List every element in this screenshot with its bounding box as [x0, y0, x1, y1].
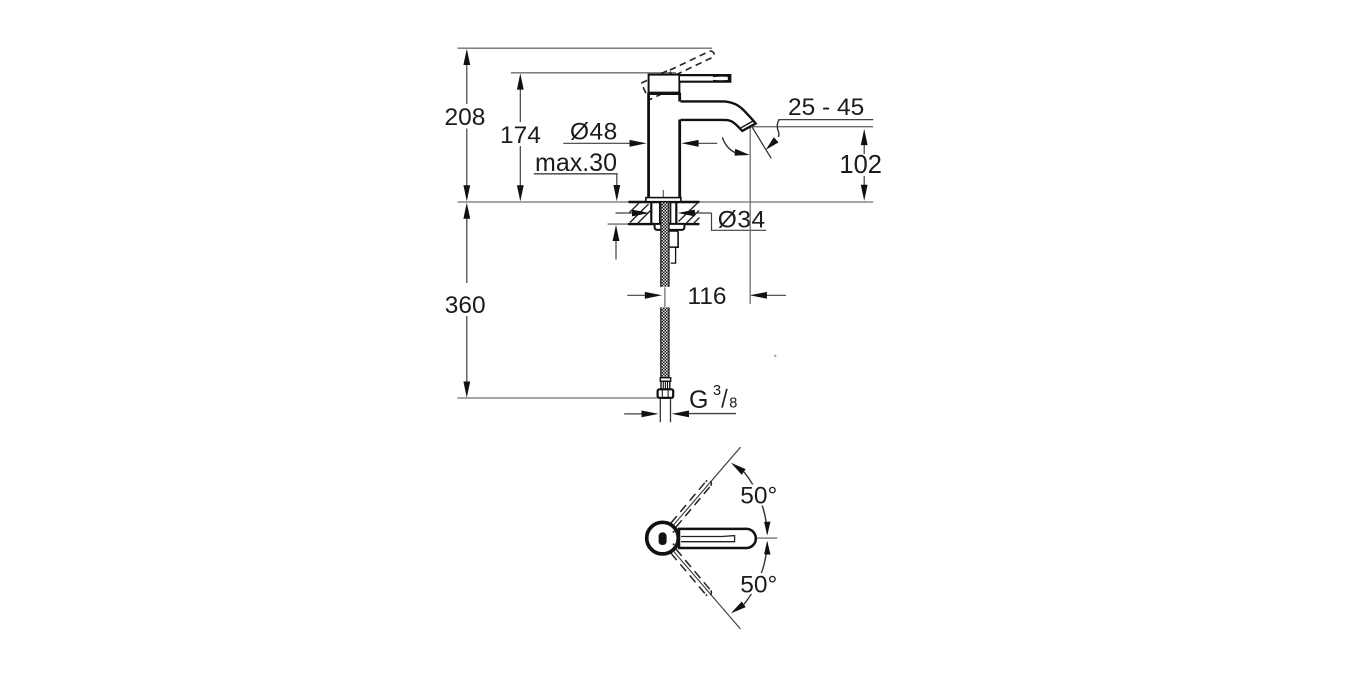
dimension 102 line	[863, 144, 865, 154]
svg-text:360: 360	[445, 292, 486, 319]
dimension 174 arrow down	[517, 185, 524, 201]
dimension 116 arrow left (points right)	[627, 294, 647, 296]
knurled collar	[661, 381, 670, 389]
svg-text:G: G	[689, 386, 708, 414]
faucet body right edge	[678, 93, 681, 102]
dimension 102 arrow down	[861, 185, 868, 201]
stray speck	[774, 355, 776, 357]
upper arc arrowhead at boundary	[731, 463, 746, 475]
shank inner walls	[659, 203, 661, 225]
lever handle (side view)	[680, 75, 730, 82]
25-45 leader curve with arrow	[777, 120, 779, 137]
svg-text:174: 174	[500, 122, 541, 149]
indicator slot	[659, 532, 667, 545]
ghost lever stem rotated up (dashed)	[671, 481, 711, 528]
dimension 174 arrow up	[517, 73, 524, 89]
hose break centerline	[664, 288, 666, 308]
spout tip horizontal extension line	[752, 126, 874, 128]
dimension 34 arrow right (points left)	[695, 212, 712, 214]
countertop hatching right	[679, 203, 700, 224]
dimension 360 line	[466, 218, 468, 283]
G3/8 threaded tube	[659, 398, 661, 422]
faucet body circle (top view)	[647, 522, 679, 554]
countertop line	[458, 201, 874, 203]
connection rod right of hose	[670, 231, 678, 247]
ghost lever stem rotated down (dashed)	[671, 549, 711, 596]
mounting washer under slab	[655, 225, 685, 230]
leader step to label 34	[712, 213, 767, 230]
top reference line (overall height 208 upper extent)	[458, 47, 713, 49]
shank left wall	[650, 203, 652, 225]
label 50 deg upper	[739, 485, 780, 506]
svg-text:25 - 45: 25 - 45	[788, 94, 864, 121]
dimension 116 arrow right (points left)	[766, 294, 786, 296]
faucet body left edge	[647, 93, 650, 198]
dimension 102 arrow up	[861, 129, 868, 145]
svg-text:Ø34: Ø34	[718, 207, 766, 234]
svg-text:102: 102	[839, 151, 882, 179]
lower arc arrowhead at centerline	[764, 541, 770, 555]
label 50 deg lower	[739, 573, 780, 594]
dimension 34 arrow left (points right)	[616, 212, 635, 214]
shank right wall	[675, 203, 677, 225]
countertop slab bottom line	[608, 223, 628, 225]
flexible hose braid lower segment	[661, 307, 669, 377]
svg-text:Ø48: Ø48	[570, 119, 618, 146]
spout tip vertical extension line	[749, 128, 751, 305]
aerator swivel arc arrow	[722, 137, 741, 154]
handle swing upper boundary line	[673, 447, 740, 525]
dimension 174 line	[519, 88, 521, 122]
svg-text:max.30: max.30	[535, 149, 617, 177]
dimension 48 arrow line left (points right at body)	[563, 142, 631, 144]
dimension 208 arrow down	[463, 185, 470, 201]
hose hex nut	[658, 389, 674, 398]
faucet base plate	[646, 198, 681, 202]
dimension 208 line	[466, 63, 468, 104]
faucet cartridge cap	[649, 75, 680, 93]
svg-text:50°: 50°	[740, 571, 777, 598]
svg-text:208: 208	[445, 104, 486, 131]
dimension G3/8 arrow left (points right)	[624, 413, 643, 415]
supply line inside body	[662, 190, 664, 202]
svg-text:50°: 50°	[740, 483, 777, 510]
ghost handle raised position (dashed)	[641, 49, 720, 99]
svg-text:116: 116	[687, 283, 726, 310]
50 degree arc upper	[744, 472, 767, 534]
countertop slab top (thick segment)	[629, 201, 700, 204]
cap bottom thick band	[648, 92, 681, 95]
50 degree arc lower	[744, 543, 767, 605]
spout mouth line	[741, 121, 753, 128]
flexible hose braid upper segment	[661, 203, 669, 287]
aerator 45 degree line	[752, 126, 772, 158]
max.30 leader down arrow to countertop	[616, 174, 618, 186]
lower arc arrowhead at boundary	[731, 602, 746, 614]
svg-text:8: 8	[729, 396, 737, 412]
dimension 48 arrow line right (points left at body)	[697, 142, 717, 144]
horizontal centerline of top view	[679, 537, 777, 539]
25-45 shelf line	[778, 119, 873, 121]
dimension G3/8 arrow right (points left)	[688, 413, 737, 415]
svg-text:3: 3	[713, 383, 721, 399]
pivot dots	[673, 531, 675, 533]
dimension 360 arrow down	[463, 382, 470, 398]
countertop hatching left	[630, 203, 651, 224]
max.30 up arrow below slab	[615, 241, 617, 260]
lever paddle (top view)	[679, 529, 756, 548]
dimension 208 arrow up	[463, 49, 470, 65]
dimension 360 arrow up	[463, 203, 470, 219]
bottom reference line (360 lower extent)	[457, 397, 657, 399]
hose end ferrule	[660, 378, 670, 382]
handle swing lower boundary line	[673, 551, 740, 629]
spout	[681, 101, 756, 130]
upper arc arrowhead at centerline	[764, 522, 770, 536]
reference line for 174 (top of faucet body)	[511, 72, 676, 74]
lever stem inner line	[681, 536, 735, 542]
